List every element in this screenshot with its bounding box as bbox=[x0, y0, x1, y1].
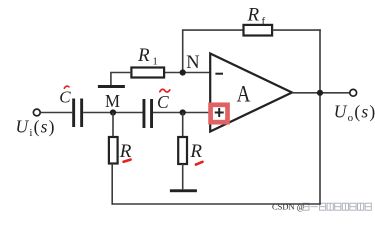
node N bbox=[180, 69, 186, 75]
svg-text:M: M bbox=[105, 91, 120, 111]
output terminal Uo bbox=[350, 89, 357, 96]
watermark CSDN bbox=[272, 202, 371, 212]
svg-text:CSDN @: CSDN @ bbox=[272, 202, 305, 212]
resistor R (left) bbox=[109, 137, 118, 164]
svg-text:f: f bbox=[262, 15, 266, 27]
capacitor C1 bbox=[72, 99, 75, 128]
svg-text:R: R bbox=[137, 45, 150, 66]
wire bottom return bbox=[112, 203, 321, 205]
wire C2 to op-amp plus input bbox=[153, 112, 210, 114]
wire plus node down to R (right) bbox=[182, 113, 184, 138]
svg-text:A: A bbox=[237, 82, 251, 107]
svg-text:C: C bbox=[59, 88, 71, 107]
node M bbox=[110, 109, 116, 115]
wire node N to op-amp minus input bbox=[183, 72, 211, 74]
wire node M down to R (left) bbox=[112, 113, 114, 138]
red highlight box around plus input bbox=[211, 105, 228, 122]
resistor R (right) bbox=[178, 137, 187, 164]
input terminal Ui bbox=[33, 109, 40, 116]
svg-text:C: C bbox=[157, 92, 169, 112]
wire R (left) bottom to bottom return bbox=[111, 164, 113, 205]
wire R1 right lead bbox=[164, 72, 183, 74]
red accent over C1 bbox=[64, 86, 69, 88]
svg-text:R: R bbox=[189, 141, 202, 162]
op-amp A triangle bbox=[210, 54, 292, 132]
svg-text:N: N bbox=[186, 53, 199, 73]
wire top feedback left segment bbox=[183, 29, 244, 31]
wire R1 left lead bbox=[111, 73, 131, 86]
wire R (right) bottom to ground bbox=[182, 164, 184, 189]
svg-text:Ui(s): Ui(s) bbox=[16, 117, 56, 140]
svg-text:Uo(s): Uo(s) bbox=[334, 102, 375, 125]
wire left vertical from top wire to node N bbox=[182, 29, 184, 72]
svg-text:1: 1 bbox=[153, 57, 158, 68]
op-amp plus sign bbox=[215, 108, 224, 117]
red dash under left R bbox=[124, 160, 131, 162]
node output junction bbox=[317, 90, 323, 96]
capacitor C2 bbox=[143, 99, 146, 128]
svg-text:R: R bbox=[247, 4, 260, 25]
resistor Rf bbox=[244, 25, 273, 36]
wire op-amp output to terminal bbox=[292, 92, 350, 94]
ground bar (R1 ground) bbox=[98, 85, 125, 88]
op-amp minus sign bbox=[215, 73, 223, 75]
node junction at plus branch bbox=[180, 109, 186, 115]
ground bar (right R ground) bbox=[170, 189, 197, 192]
wire top feedback right segment bbox=[272, 29, 321, 31]
resistor R1 bbox=[131, 68, 164, 78]
red accent over C2 bbox=[160, 89, 170, 92]
wire C1 to C2 through node M bbox=[83, 112, 142, 114]
wire right vertical (output rail) bbox=[319, 29, 321, 205]
wire input to C1 bbox=[40, 112, 72, 114]
red dash under right R bbox=[196, 162, 203, 165]
